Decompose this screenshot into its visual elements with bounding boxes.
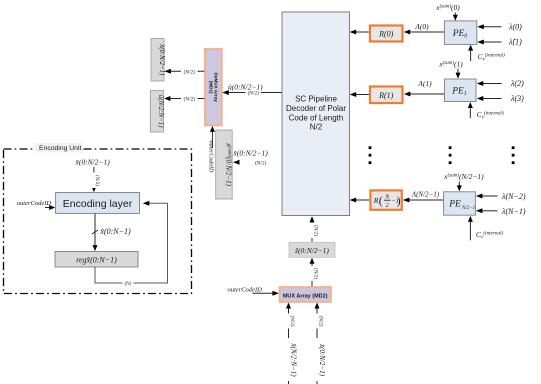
processing element PE0 <box>444 21 476 45</box>
wire outerCodeID control into MD1 bottom <box>208 126 215 173</box>
svg-text:Code of Length: Code of Length <box>289 113 344 122</box>
node x(sum)(N/2-1) label and wire into PEN top <box>443 172 484 191</box>
node encoding unit title <box>35 143 83 153</box>
svg-text:x(sum)(0): x(sum)(0) <box>435 3 460 12</box>
wire RN2 to decoder <box>350 198 370 203</box>
node x(sum)(0) input label and wire into PE0 top <box>435 3 460 21</box>
svg-text:Cv(internal): Cv(internal) <box>476 229 503 240</box>
svg-text:(N/2): (N/2) <box>248 90 260 97</box>
svg-text:(N/2): (N/2) <box>289 316 294 327</box>
svg-text:(N/2): (N/2) <box>317 316 322 327</box>
svg-text:R(1): R(1) <box>378 91 394 100</box>
wire R0 to decoder <box>350 30 369 35</box>
svg-text:x̂(N/2:N−1): x̂(N/2:N−1) <box>289 342 297 377</box>
svg-text:λ(N−2): λ(N−2) <box>501 192 526 201</box>
wire MD1 to uhat latch, bus (N/2) <box>164 96 205 103</box>
svg-text:x̂(0:N/2−1): x̂(0:N/2−1) <box>75 158 111 167</box>
wire MD2 left input xhat(N/2:N-1) with bus (N/2) <box>285 303 298 384</box>
latch box xhat(0:N/2-1) <box>151 39 165 82</box>
svg-text:λ(0): λ(0) <box>508 23 522 32</box>
latch box x(sum)(0:N/2-1) <box>216 130 233 199</box>
wire Cv internal into PE0 bottom <box>468 45 505 63</box>
node dots column between PEs <box>449 146 452 164</box>
wire MD1 to xhat latch, bus (N/2) <box>164 68 204 75</box>
block: encoding layer <box>56 193 140 214</box>
wire lambda(2) input <box>477 79 524 88</box>
wire lambda(0) input <box>477 23 522 32</box>
wire R1 to decoder <box>350 92 369 97</box>
wire lambda(3) input <box>477 94 524 103</box>
svg-text:x(sum)(1): x(sum)(1) <box>438 60 463 69</box>
svg-text:Λ(0): Λ(0) <box>414 22 429 31</box>
register R1 <box>370 87 403 104</box>
svg-text:regx̂(0:N−1): regx̂(0:N−1) <box>76 256 117 265</box>
wire outerCodeID into MD2 <box>228 287 279 296</box>
node dots column between R registers <box>369 146 372 164</box>
register regxhat(0:N-1) <box>55 252 138 268</box>
svg-text:SC Pipeline: SC Pipeline <box>295 95 337 104</box>
svg-text:Cv(internal): Cv(internal) <box>478 51 505 62</box>
svg-text:(MD1): (MD1) <box>208 81 213 94</box>
wire outerCodeID into encoding layer <box>17 200 55 210</box>
svg-text:Encoding Unit: Encoding Unit <box>39 145 81 152</box>
processing element PE1 <box>445 79 477 102</box>
register RN2 (R(N/2-1)) <box>370 190 401 209</box>
processing element PEN (PE N/2-1) <box>444 192 476 215</box>
wire Cv internal into PE1 bottom <box>468 102 504 121</box>
svg-text:Λ(1): Λ(1) <box>417 79 432 88</box>
wire MD2 to zhat with rotated (N/2) <box>309 258 317 287</box>
svg-text:Encoding layer: Encoding layer <box>63 198 133 210</box>
wire PE1 to R1, label Lambda(1) <box>404 79 445 97</box>
wire zhat to decoder bottom with rotated (N/2) <box>309 216 317 242</box>
svg-text:PE: PE <box>448 200 461 210</box>
svg-text:Decoder of Polar: Decoder of Polar <box>286 104 346 113</box>
latch box uhat(N/2:N-1) <box>150 91 164 133</box>
node dots column at lambda inputs <box>512 146 515 164</box>
block MD1: DeMUX array <box>205 49 222 125</box>
node xhat(0:N/2-1) into x(sum) latch (arrowhead and bus label) <box>233 149 269 167</box>
svg-text:(N/2): (N/2) <box>184 68 196 75</box>
latch box zhat(0:N/2-1) <box>289 242 335 257</box>
block MD2: MUX array <box>280 287 332 302</box>
wire Cv internal into PEN bottom <box>468 216 504 241</box>
svg-text:outerCodeID: outerCodeID <box>17 200 52 207</box>
svg-text:(: ( <box>379 195 383 207</box>
node x(sum)(1) label and wire into PE1 top <box>438 60 463 79</box>
svg-text:(N/2): (N/2) <box>255 159 267 166</box>
svg-text:Λ(N/2−1): Λ(N/2−1) <box>411 191 440 199</box>
wire lambda(N-2) input <box>476 192 526 201</box>
svg-text:R(0): R(0) <box>378 30 394 39</box>
svg-text:x(sum)(N/2−1): x(sum)(N/2−1) <box>443 172 484 181</box>
svg-text:x̂(0:N/2−1): x̂(0:N/2−1) <box>233 149 269 158</box>
node xhat(0:N/2-1) label at encoding unit top <box>75 158 111 167</box>
register R0 <box>370 26 403 42</box>
svg-text:(N/2): (N/2) <box>312 268 317 279</box>
wire encoding layer to reg, slash, label xhat(0:N-1) <box>92 214 131 252</box>
wire decoder to MD1, label uhat(0:N/2-1), bus (N/2) <box>222 83 281 97</box>
svg-text:Cv(internal): Cv(internal) <box>477 109 504 120</box>
wire MD2 right input xhat(0:N/2-1) with bus (N/2) <box>313 303 326 384</box>
svg-text:x̂(0:N/2−1): x̂(0:N/2−1) <box>318 343 326 377</box>
svg-text:x̂(0:N−1): x̂(0:N−1) <box>99 227 131 236</box>
wire into encoding layer top with rotated (N/2) <box>91 167 99 192</box>
svg-text:λ(2): λ(2) <box>510 79 524 88</box>
svg-text:): ) <box>397 195 401 207</box>
wire PEN to RN2, label Lambda(N/2-1) <box>403 191 444 203</box>
wire lambda(1) input <box>477 38 522 47</box>
svg-text:(N): (N) <box>125 282 132 287</box>
block: encoding unit dashed-dot frame <box>4 149 192 294</box>
block U0: SC pipeline decoder main box <box>282 12 350 216</box>
svg-text:λ(3): λ(3) <box>510 94 524 103</box>
wire lambda(N-1) input <box>476 207 526 216</box>
svg-text:û(N/2:N−1): û(N/2:N−1) <box>157 95 164 128</box>
svg-text:(N/2): (N/2) <box>94 175 99 186</box>
svg-text:ẑ(0:N/2−1): ẑ(0:N/2−1) <box>294 246 329 255</box>
svg-text:(N/2): (N/2) <box>184 96 196 103</box>
svg-text:N/2: N/2 <box>310 123 323 132</box>
svg-text:MUX Array (MD2): MUX Array (MD2) <box>283 293 328 299</box>
svg-text:(N/2): (N/2) <box>312 225 317 236</box>
svg-text:λ̂(1): λ̂(1) <box>508 38 522 47</box>
wire PE0 to R0, label Lambda(0) <box>404 22 445 35</box>
wire feedback loop from reg to encoding layer with (N) <box>95 201 168 287</box>
svg-text:λ(N−1): λ(N−1) <box>501 207 526 216</box>
svg-text:2: 2 <box>386 203 389 209</box>
svg-text:outerCodeID: outerCodeID <box>208 141 214 173</box>
svg-text:N/2−1: N/2−1 <box>461 206 475 211</box>
svg-text:x̂(0:N/2−1): x̂(0:N/2−1) <box>158 43 165 76</box>
svg-text:outerCodeID: outerCodeID <box>228 287 263 294</box>
